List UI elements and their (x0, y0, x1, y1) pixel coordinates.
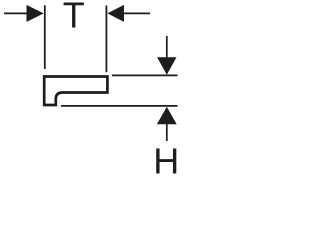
dimension T right stem (124, 12, 151, 14)
dimension H bottom extension line (61, 105, 178, 107)
dimension H down-arrow stem (166, 36, 168, 58)
svg-text:T: T (63, 0, 85, 36)
dimension T left extension line (44, 5, 46, 69)
dimension T right extension line (105, 6, 107, 73)
dimension T right arrowhead (107, 5, 124, 22)
dimension H down arrowhead (157, 57, 176, 74)
dimension T left arrowhead (27, 5, 44, 22)
dimension H up-arrow stem (166, 124, 168, 141)
svg-text:H: H (153, 141, 179, 180)
dimension H up arrowhead (157, 107, 177, 125)
shelf profile outline (44, 77, 107, 106)
dimension T left stem (4, 12, 28, 14)
dimension H top extension line (112, 74, 178, 76)
